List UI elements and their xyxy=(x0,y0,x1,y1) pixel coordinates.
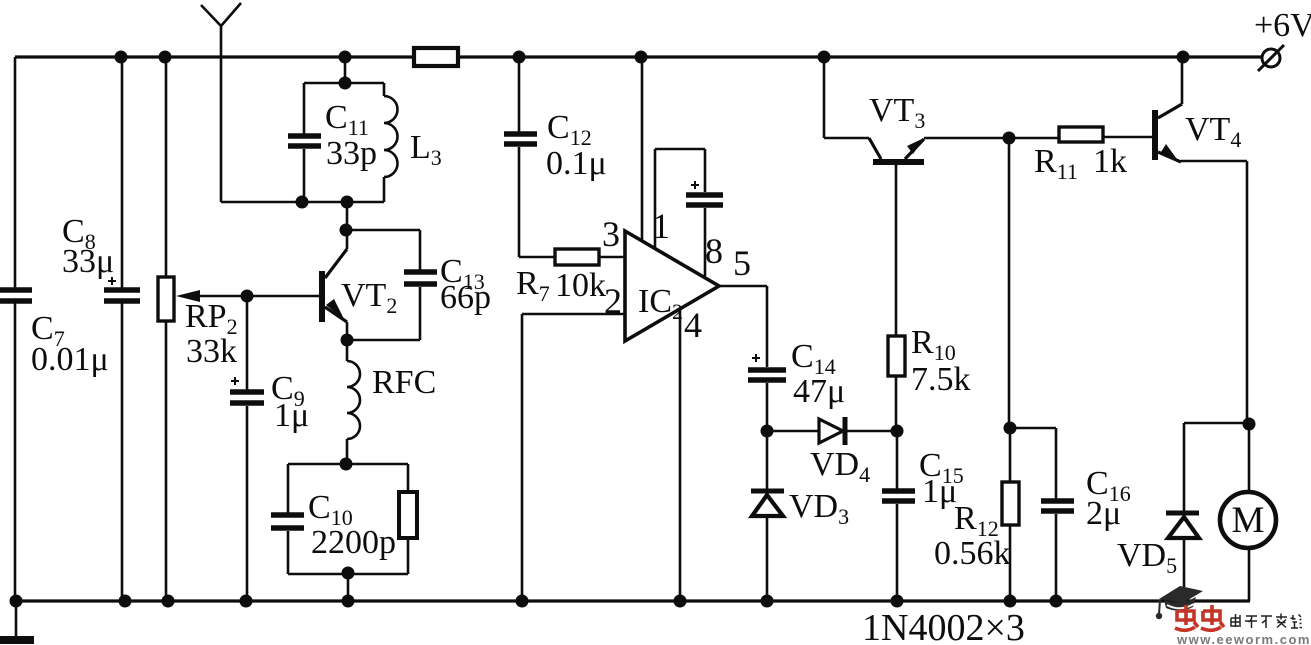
svg-text:7.5k: 7.5k xyxy=(911,361,971,398)
node dot RP2 bottom xyxy=(162,595,175,608)
svg-text:10k: 10k xyxy=(555,267,606,304)
logo mark chongchong (red) xyxy=(1175,605,1224,630)
node dot C8 bottom xyxy=(119,595,132,608)
node dot tank feed top xyxy=(339,51,352,64)
wire left vertical (C7 branch lower) xyxy=(14,303,17,601)
resistor R10 xyxy=(888,165,971,431)
resistor R11 xyxy=(1034,127,1153,184)
wire pin 1 from rail xyxy=(641,57,644,240)
svg-text:1: 1 xyxy=(652,206,670,246)
svg-text:4: 4 xyxy=(684,305,702,345)
svg-text:0.1μ: 0.1μ xyxy=(546,145,607,182)
node dot motor top xyxy=(1243,418,1256,431)
capacitor C10 tank xyxy=(271,464,408,574)
svg-text:33k: 33k xyxy=(186,333,237,370)
capacitor C8 xyxy=(62,57,140,601)
diode VD3 xyxy=(751,431,849,601)
svg-text:3: 3 xyxy=(602,214,620,254)
svg-text:5: 5 xyxy=(733,243,751,283)
wire tank to collector node xyxy=(346,202,349,230)
node dot rail below C10 xyxy=(342,595,355,608)
svg-text:2200p: 2200p xyxy=(311,524,396,561)
svg-text:+6V: +6V xyxy=(1254,7,1311,44)
node dot VD3/VD4 junction xyxy=(761,425,774,438)
wire base of VT2 xyxy=(247,295,320,298)
diode VD5 xyxy=(1117,513,1199,601)
wire VT4 emitter run xyxy=(1181,161,1247,423)
node dot C10 top xyxy=(340,458,353,471)
node dot C10 bottom xyxy=(342,567,355,580)
svg-text:0.01μ: 0.01μ xyxy=(31,341,109,378)
capacitor C14 xyxy=(748,338,845,431)
wire pin 2 input xyxy=(522,314,625,601)
svg-text:RFC: RFC xyxy=(372,364,436,401)
svg-text:1μ: 1μ xyxy=(922,473,957,510)
wire tank feed xyxy=(344,57,347,83)
node dot C16 ground xyxy=(1050,595,1063,608)
wire antenna to tank bottom xyxy=(221,201,384,204)
wire top +6V rail xyxy=(15,55,1262,58)
capacitor C16 xyxy=(1010,428,1131,601)
node dot tank bottom left xyxy=(296,196,309,209)
svg-text:66p: 66p xyxy=(440,279,491,316)
node dot C15 ground xyxy=(891,595,904,608)
capacitor C7 xyxy=(0,290,109,378)
svg-text:8: 8 xyxy=(705,231,723,271)
node dot R12/C16 xyxy=(1004,422,1017,435)
node dot RP2 top xyxy=(159,51,172,64)
logo graduation cap xyxy=(1156,586,1203,619)
wire pin 4 to ground xyxy=(679,308,682,601)
node dot VT4 rail xyxy=(1177,51,1190,64)
node dot tank bottom center xyxy=(341,196,354,209)
svg-text:2: 2 xyxy=(604,281,622,321)
wire C10 to rail xyxy=(347,574,350,601)
svg-text:0.56k: 0.56k xyxy=(934,535,1011,572)
node dot pin2 ground xyxy=(516,595,529,608)
logo text site name (drawn glyphs) xyxy=(1231,614,1302,629)
wire VT3 emitter branch down xyxy=(1008,138,1011,428)
node dot VD3 ground xyxy=(761,595,774,608)
node dot VT3 rail xyxy=(818,51,831,64)
node A (wiper/C9/base junction) xyxy=(241,290,254,303)
capacitor C9 xyxy=(230,296,309,601)
capacitor C12 xyxy=(504,57,607,257)
resistor R7 xyxy=(516,249,625,306)
transistor VT2 xyxy=(319,230,397,340)
svg-text:1k: 1k xyxy=(1093,143,1127,180)
transistor VT4 xyxy=(1152,57,1241,162)
svg-text:33p: 33p xyxy=(326,135,377,172)
resistor (unlabeled, in C10 tank) xyxy=(399,464,417,574)
inductor L3 xyxy=(384,83,442,202)
diode VD4 xyxy=(767,417,897,487)
node dot C9 bottom xyxy=(240,595,253,608)
capacitor (bootstrap, unlabeled) xyxy=(686,181,723,276)
node dot collector xyxy=(340,224,353,237)
transistor VT3 xyxy=(824,57,1009,165)
antenna xyxy=(201,3,241,202)
resistor (unlabeled, supply rail) xyxy=(414,48,458,66)
svg-text:1N4002×3: 1N4002×3 xyxy=(862,607,1025,645)
node dot emitter xyxy=(341,334,354,347)
capacitor C15 xyxy=(882,431,964,601)
capacitor C13 xyxy=(346,230,491,340)
wire bottom ground rail xyxy=(15,599,1250,602)
ground xyxy=(0,601,34,640)
svg-text:1μ: 1μ xyxy=(274,397,309,434)
wire output pin 5 xyxy=(719,286,767,367)
node dot R12 ground xyxy=(1004,595,1017,608)
motor M xyxy=(1220,424,1276,601)
node dot pin1 rail xyxy=(635,51,648,64)
wire R11 feed xyxy=(1009,137,1059,140)
resistor R12 xyxy=(934,428,1019,601)
svg-text:www.eeworm.com: www.eeworm.com xyxy=(1176,632,1311,645)
wire pin1-to-pin8 loop xyxy=(655,149,705,249)
node dot C12 top xyxy=(513,51,526,64)
node dot pin4 ground xyxy=(674,595,687,608)
capacitor C11 xyxy=(288,83,384,202)
node dot R10/VD4/C15 xyxy=(891,425,904,438)
svg-text:2μ: 2μ xyxy=(1086,495,1121,532)
wire VD5 branch top xyxy=(1184,423,1249,511)
svg-text:47μ: 47μ xyxy=(793,373,845,410)
op-amp IC2 xyxy=(625,231,719,341)
node dot C8 top xyxy=(115,51,128,64)
terminal +6V xyxy=(1254,7,1311,71)
wire left vertical (C7 branch upper) xyxy=(14,57,17,289)
inductor RFC xyxy=(347,340,436,464)
svg-text:33μ: 33μ xyxy=(62,243,114,280)
svg-text:M: M xyxy=(1232,500,1265,541)
node dot tank top xyxy=(339,77,352,90)
node dot VT3 emitter / R11 xyxy=(1003,132,1016,145)
node dot bottom-left xyxy=(10,595,23,608)
potentiometer RP2 xyxy=(158,57,247,601)
